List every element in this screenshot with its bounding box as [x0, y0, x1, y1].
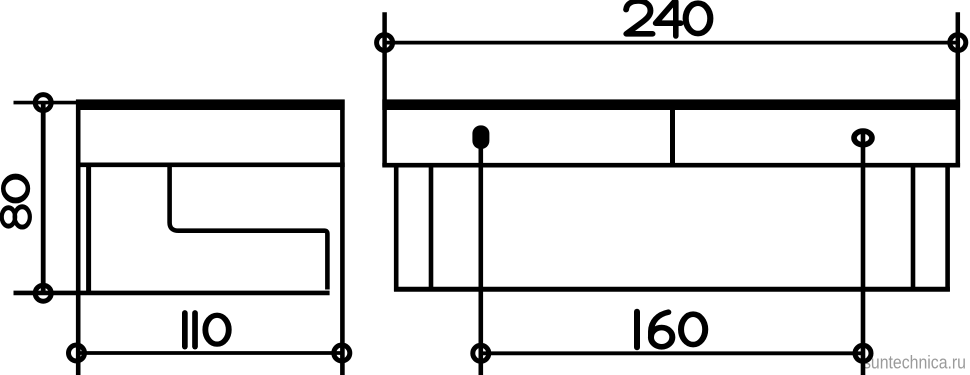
- front view: left rail edge + extension line up to 240 dimension: [382, 12, 387, 166]
- front view: basket right outer edge: [945, 167, 950, 291]
- dimension line 80 (vertical): [41, 103, 46, 294]
- left view: left outer edge / extension line down to 110 dimension: [76, 100, 81, 375]
- label 240: [626, 1, 710, 36]
- label 110: [185, 313, 229, 347]
- extension line through left screw down to 160 dimension: [478, 147, 483, 375]
- dimension end circle, 240 left: [377, 35, 393, 51]
- left view: right outer edge / extension line down to 110 dimension: [340, 100, 345, 375]
- front view: right rail edge + extension line up to 240 dimension: [956, 12, 961, 166]
- left view: basket profile left vertical: [86, 167, 91, 293]
- dimension end circle, 240 right: [950, 35, 966, 51]
- dimension end circle, 160 right: [855, 345, 871, 361]
- front view: basket bottom line: [394, 287, 950, 292]
- dimension line 110: [77, 351, 342, 355]
- left view: rail bottom divider line: [76, 163, 345, 168]
- front view: basket left outer edge: [394, 167, 399, 291]
- dimension line 240: [385, 41, 958, 45]
- front view: rail middle divider: [670, 110, 675, 165]
- front view: rail bottom line: [382, 163, 960, 168]
- left view: top rail bar (thick): [76, 99, 345, 110]
- front view: basket right inner wire: [911, 167, 916, 290]
- svg-text:suntechnica.ru: suntechnica.ru: [863, 353, 966, 373]
- dimension end circle, 110 right: [334, 345, 350, 361]
- label 80 (rotated): [2, 177, 30, 227]
- front view: top rail bar (thick): [382, 99, 960, 110]
- front view: left screw (filled capsule): [472, 125, 489, 149]
- extension line through right screw down to 160 dimension: [861, 130, 866, 375]
- label 160: [637, 312, 705, 347]
- extension line, top of 80 dimension: [14, 101, 79, 105]
- left view: basket profile bottom line + extension of 80 dimension: [14, 291, 330, 296]
- dimension end circle, 110 left: [69, 345, 85, 361]
- left view: basket profile step (vertical, rounded corner, shelf line, right vertical): [170, 167, 328, 290]
- dimension end circle, 160 left: [473, 345, 489, 361]
- front view: basket left inner wire: [429, 167, 434, 290]
- dimension end circle, 80 bottom: [35, 285, 51, 301]
- dimension end circle, 80 top: [35, 95, 51, 111]
- front view: right screw (ring): [854, 131, 872, 145]
- dimension line 160: [481, 351, 863, 355]
